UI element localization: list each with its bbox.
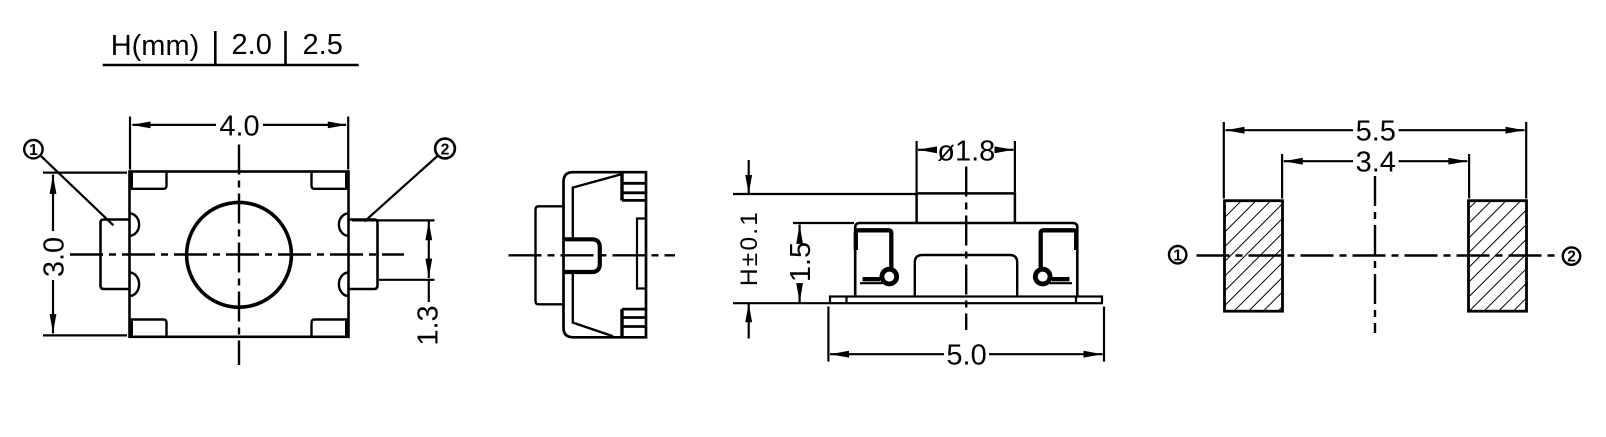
dim 1.5 arrow up bbox=[796, 225, 803, 244]
footprint pin 1 circle bbox=[1169, 246, 1186, 263]
dim 3.0 line lower segment bbox=[52, 280, 54, 334]
svg-text:2.0: 2.0 bbox=[232, 29, 272, 61]
top view left edge bump upper bbox=[130, 213, 140, 235]
dim H arrow up bbox=[745, 303, 752, 322]
svg-text:1: 1 bbox=[1173, 247, 1182, 264]
dim 1.8 line right segment bbox=[998, 149, 1014, 151]
top view corner step bottom-left bbox=[132, 320, 167, 337]
dim 4.0 arrow left bbox=[132, 122, 151, 129]
svg-text:3.0: 3.0 bbox=[39, 237, 71, 277]
top view left terminal tab bbox=[101, 220, 130, 290]
dim 5.5 extension line right bbox=[1525, 122, 1527, 199]
side view outer body bbox=[564, 172, 647, 337]
front view left contact bbox=[856, 230, 892, 267]
svg-text:2: 2 bbox=[1567, 249, 1576, 266]
dim 1.3 arrow up bbox=[425, 221, 432, 240]
side view bottom terminal line 1 bbox=[622, 308, 646, 311]
dim 3.0 extension line top bbox=[43, 172, 127, 174]
side view top terminal line 1 bbox=[622, 182, 646, 185]
top view button circle bbox=[187, 202, 292, 307]
svg-text:1.5: 1.5 bbox=[785, 242, 817, 282]
dim 1.8 arrow right bbox=[995, 146, 1014, 153]
dim 5.0 arrow right bbox=[1084, 351, 1103, 358]
front view base plate tick left bbox=[845, 297, 847, 304]
side view top terminal edge bbox=[620, 172, 623, 200]
side view cover bottom slant line bbox=[573, 323, 614, 337]
footprint left pad bbox=[1225, 201, 1283, 312]
dim 3.4 line left segment bbox=[1284, 160, 1353, 162]
front view base plate bbox=[830, 297, 1102, 304]
dim 4.0 arrow right bbox=[328, 122, 347, 129]
table separator 1 bbox=[214, 31, 217, 64]
dim 5.5 line right segment bbox=[1399, 129, 1525, 131]
dim 3.4 arrow left bbox=[1284, 158, 1303, 165]
front view left contact seat bbox=[863, 277, 881, 281]
top view corner step top-right bbox=[312, 172, 347, 189]
table separator 2 bbox=[284, 31, 287, 64]
front view left contact hook bbox=[880, 267, 900, 287]
dim 1.3 arrow down bbox=[425, 259, 432, 278]
dim H extension line bottom bbox=[733, 302, 829, 304]
side view bottom terminal line 3 bbox=[622, 325, 646, 328]
dim 1.3 extension line bottom bbox=[379, 279, 435, 281]
dim 5.5 extension line left bbox=[1223, 122, 1225, 199]
dim 5.5 arrow left bbox=[1226, 127, 1245, 134]
side view base flange bbox=[536, 206, 564, 304]
dim 1.5 line upper bbox=[798, 225, 800, 241]
dim 4.0 extension line right bbox=[347, 117, 349, 170]
top view corner step bottom-right bbox=[312, 320, 347, 337]
dim 4.0 line left segment bbox=[133, 124, 217, 126]
dim 1.8 extension line right bbox=[1014, 141, 1016, 192]
side view top terminal line 3 bbox=[622, 199, 646, 202]
svg-text:3.4: 3.4 bbox=[1356, 147, 1396, 179]
dim 1.5 arrow down bbox=[796, 283, 803, 302]
side view right recess bbox=[637, 219, 646, 289]
dim 5.0 extension line right bbox=[1103, 307, 1105, 362]
svg-text:H±0.1: H±0.1 bbox=[736, 210, 763, 286]
dim 1.5 line lower bbox=[798, 284, 800, 303]
dim 3.4 arrow right bbox=[1448, 158, 1467, 165]
pin 1 symbol circle bbox=[24, 140, 42, 158]
side view cover inner vertical upper bbox=[572, 187, 574, 240]
side view bottom terminal edge bbox=[620, 309, 623, 337]
dim 5.0 line right segment bbox=[989, 353, 1103, 355]
svg-text:1: 1 bbox=[29, 142, 38, 159]
front view vertical centerline bbox=[965, 167, 967, 331]
dim 3.0 arrow up bbox=[50, 175, 57, 194]
svg-text:4.0: 4.0 bbox=[219, 110, 259, 142]
dim 1.3 line bbox=[428, 221, 430, 278]
top view corner step top-left bbox=[132, 172, 167, 189]
dim 5.5 arrow right bbox=[1506, 127, 1525, 134]
front view right contact bbox=[1041, 230, 1077, 267]
svg-text:5.0: 5.0 bbox=[946, 340, 986, 372]
dim H arrow down bbox=[745, 175, 752, 194]
footprint horizontal centerline bbox=[1197, 254, 1556, 256]
svg-text:5.5: 5.5 bbox=[1356, 116, 1396, 148]
dim 1.3 line tail bbox=[428, 280, 430, 302]
side view bottom terminal line 2 bbox=[622, 316, 646, 319]
top view vertical centerline bbox=[238, 145, 240, 366]
dim 5.0 extension line left bbox=[827, 307, 829, 362]
top view right edge bump lower bbox=[339, 273, 349, 297]
dim H line top segment bbox=[748, 160, 750, 194]
dim 3.4 line right segment bbox=[1399, 160, 1468, 162]
dim 1.8 line left segment bbox=[918, 149, 934, 151]
side view top terminal line 2 bbox=[622, 191, 646, 194]
dim 1.5 extension line top bbox=[793, 222, 854, 224]
svg-text:1.3: 1.3 bbox=[412, 305, 444, 345]
top view right terminal tab bbox=[349, 220, 378, 290]
side view cover inner vertical lower bbox=[572, 272, 574, 323]
footprint vertical centerline bbox=[1374, 176, 1376, 333]
side view cover top slant line bbox=[573, 175, 621, 188]
side view stem section bbox=[564, 239, 600, 272]
dim 3.0 arrow down bbox=[50, 314, 57, 333]
dim 4.0 extension line left bbox=[129, 117, 131, 170]
footprint right pad bbox=[1469, 201, 1527, 312]
dim 3.4 extension line right bbox=[1468, 154, 1470, 199]
dim 3.0 line upper segment bbox=[52, 175, 54, 232]
pin 1 leader line bbox=[40, 155, 113, 225]
front view right contact seat bbox=[1052, 277, 1070, 281]
dim H extension line top bbox=[733, 193, 916, 195]
pin 2 symbol circle bbox=[435, 139, 455, 159]
front view right contact hook bbox=[1033, 267, 1053, 287]
table underline bbox=[103, 64, 359, 67]
dim 4.0 line right segment bbox=[263, 124, 346, 126]
svg-text:2.5: 2.5 bbox=[303, 29, 343, 61]
dim 1.3 extension line top bbox=[352, 219, 435, 221]
top view right edge bump upper bbox=[339, 213, 349, 235]
dim 1.8 arrow left bbox=[918, 146, 937, 153]
dim H line bottom segment bbox=[748, 303, 750, 338]
front view left inner seat line bbox=[860, 282, 883, 284]
svg-text:2: 2 bbox=[441, 141, 450, 158]
front view right inner seat line bbox=[1050, 282, 1073, 284]
dim 3.0 extension line bottom bbox=[43, 334, 127, 336]
front view inner cavity bbox=[915, 255, 1017, 297]
svg-text:H(mm): H(mm) bbox=[111, 30, 200, 62]
top view horizontal centerline bbox=[70, 253, 404, 255]
front view body top and sides bbox=[855, 223, 1077, 297]
dim 1.8 extension line left bbox=[915, 141, 917, 192]
pin 2 leader line bbox=[364, 156, 438, 222]
footprint pin 2 circle bbox=[1563, 247, 1580, 264]
dim 5.5 line left segment bbox=[1226, 129, 1354, 131]
top view body outline bbox=[130, 172, 349, 337]
side view horizontal centerline bbox=[509, 254, 676, 256]
dim 3.4 extension line left bbox=[1281, 154, 1283, 199]
dim 5.0 arrow left bbox=[830, 351, 849, 358]
top view left edge bump lower bbox=[130, 273, 140, 297]
dim 5.0 line left segment bbox=[830, 353, 944, 355]
svg-text:ø1.8: ø1.8 bbox=[937, 135, 995, 167]
front view base plate tick right bbox=[1075, 297, 1077, 304]
front view stem bbox=[917, 193, 1015, 223]
